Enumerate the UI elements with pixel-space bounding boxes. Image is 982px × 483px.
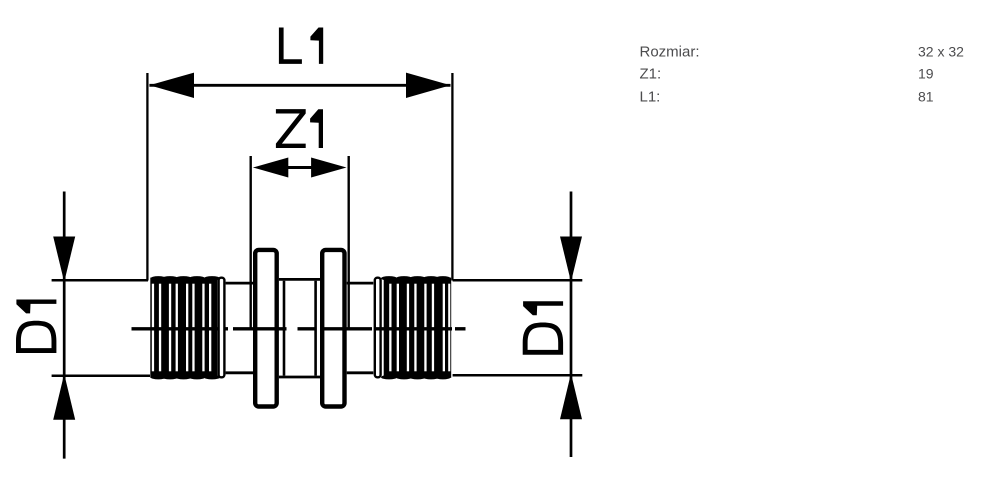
svg-text:Z1:: Z1: bbox=[640, 66, 662, 83]
dimension L1 line with arrows bbox=[149, 73, 450, 98]
spec table labels bbox=[640, 44, 700, 106]
right end crest ring bbox=[375, 278, 381, 378]
label L1 bbox=[279, 28, 323, 64]
svg-text:81: 81 bbox=[918, 88, 934, 104]
dimension Z1 line with arrows bbox=[253, 158, 347, 178]
left flange bbox=[255, 250, 277, 407]
center barrel bbox=[279, 279, 320, 377]
right flange bbox=[322, 250, 344, 407]
svg-text:L1:: L1: bbox=[640, 88, 661, 105]
left rib block bbox=[150, 276, 220, 379]
svg-text:32 x 32: 32 x 32 bbox=[918, 44, 964, 60]
left neck cylinder bbox=[226, 283, 254, 373]
dimension D1 left line with arrows bbox=[53, 192, 75, 459]
svg-text:19: 19 bbox=[918, 66, 934, 82]
label D1 right bbox=[523, 301, 563, 355]
dimension D1 right extension lines bbox=[453, 280, 583, 375]
label D1 left bbox=[16, 300, 56, 354]
dimension D1 right line with arrows bbox=[560, 192, 582, 458]
center axis line bbox=[132, 327, 466, 330]
dimension L1 extension lines bbox=[147, 73, 452, 281]
dimension Z1 extension lines bbox=[251, 156, 349, 331]
label Z1 bbox=[276, 109, 323, 148]
right rib block bbox=[381, 276, 451, 379]
dimension D1 left extension lines bbox=[52, 280, 150, 376]
svg-text:Rozmiar:: Rozmiar: bbox=[640, 44, 700, 61]
right neck cylinder bbox=[347, 283, 374, 373]
left end crest ring bbox=[219, 278, 225, 378]
spec table values bbox=[918, 44, 964, 105]
